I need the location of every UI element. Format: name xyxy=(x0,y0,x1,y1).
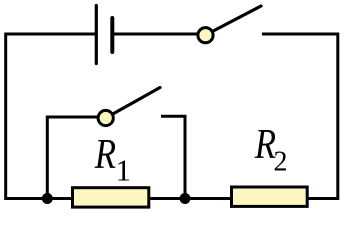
resistor R2 body xyxy=(232,187,308,206)
svg-text:2: 2 xyxy=(274,147,288,178)
wire battery to switch S1 xyxy=(112,33,205,36)
switch S2 pivot circle xyxy=(98,110,113,125)
node junction dot right xyxy=(180,193,191,204)
svg-text:1: 1 xyxy=(116,153,132,188)
switch S1 pivot circle xyxy=(198,28,213,43)
wire middle branch right: contact down to node xyxy=(161,116,185,198)
wire middle branch left: node to switch S2 xyxy=(47,117,105,199)
resistor R1 body xyxy=(73,188,149,207)
switch S1 arm xyxy=(206,6,262,35)
switch S2 arm xyxy=(106,88,160,119)
wire outer loop: right contact, right side, bottom, left side, top to battery xyxy=(6,34,338,199)
svg-text:R: R xyxy=(94,131,116,178)
node junction dot left xyxy=(42,193,53,204)
battery short plate (-) xyxy=(110,18,114,52)
battery long plate (+) xyxy=(95,6,98,64)
